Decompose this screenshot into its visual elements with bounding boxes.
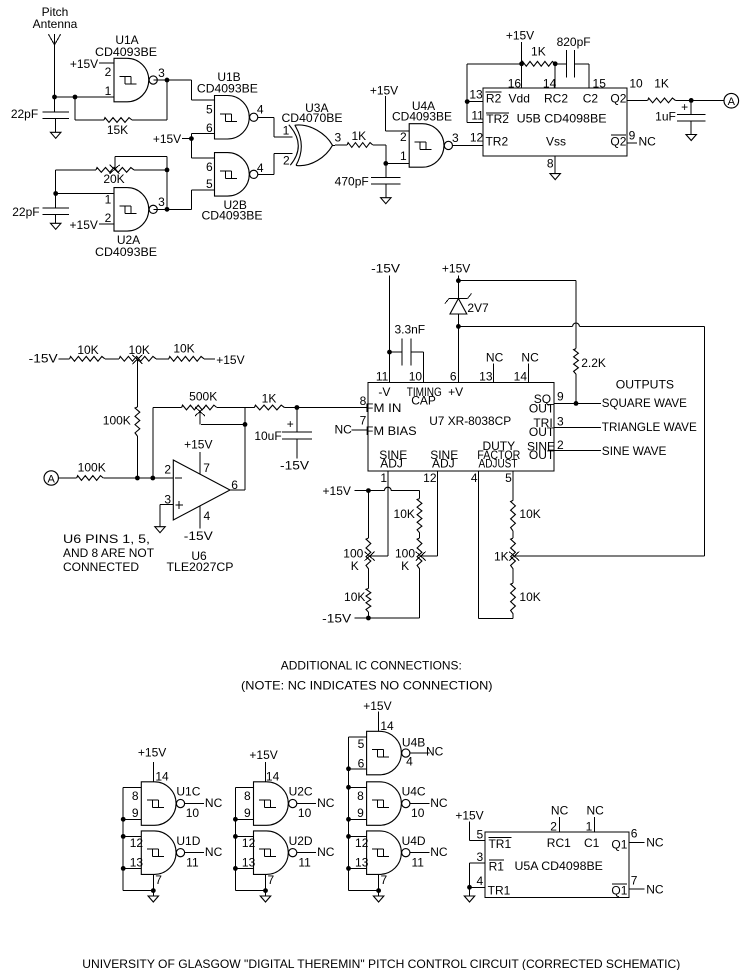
svg-text:R1: R1 (489, 859, 505, 873)
svg-text:13: 13 (479, 370, 493, 384)
svg-text:500K: 500K (189, 390, 217, 404)
svg-text:ADJUST: ADJUST (479, 457, 519, 471)
svg-text:1uF: 1uF (655, 109, 676, 123)
svg-text:9: 9 (629, 129, 636, 143)
svg-text:7: 7 (631, 873, 638, 887)
svg-text:3: 3 (477, 850, 484, 864)
svg-text:U4D: U4D (402, 834, 426, 848)
svg-text:TR1: TR1 (488, 884, 511, 898)
svg-text:TRIANGLE WAVE: TRIANGLE WAVE (602, 420, 697, 434)
svg-text:6: 6 (450, 370, 457, 384)
svg-text:14: 14 (155, 770, 169, 784)
svg-text:Q1: Q1 (611, 838, 627, 852)
svg-text:11: 11 (411, 856, 424, 870)
svg-text:U5A CD4098BE: U5A CD4098BE (515, 859, 603, 873)
svg-text:4: 4 (257, 161, 264, 175)
svg-text:15: 15 (593, 76, 607, 90)
svg-text:1K: 1K (262, 391, 277, 405)
svg-text:OUTPUTS: OUTPUTS (616, 378, 674, 392)
svg-text:U1C: U1C (176, 785, 200, 799)
svg-text:+15V: +15V (138, 745, 166, 759)
svg-text:U1D: U1D (176, 834, 200, 848)
svg-text:6: 6 (206, 121, 213, 135)
svg-text:10: 10 (409, 370, 423, 384)
svg-text:FM BIAS: FM BIAS (366, 424, 417, 438)
svg-text:TR2: TR2 (486, 112, 509, 126)
svg-text:22pF: 22pF (11, 107, 38, 121)
svg-text:Q2: Q2 (610, 92, 626, 106)
svg-text:2V7: 2V7 (467, 301, 489, 315)
svg-text:Q1: Q1 (611, 884, 627, 898)
svg-text:14: 14 (543, 76, 557, 90)
svg-text:Antenna: Antenna (33, 17, 78, 31)
svg-text:4: 4 (204, 509, 211, 523)
svg-text:11: 11 (186, 856, 199, 870)
svg-text:10: 10 (298, 806, 312, 820)
svg-text:U2D: U2D (289, 834, 313, 848)
svg-text:11: 11 (298, 856, 311, 870)
svg-text:10K: 10K (344, 590, 365, 604)
svg-text:10K: 10K (394, 507, 415, 521)
svg-text:4: 4 (471, 471, 478, 485)
svg-text:A: A (48, 473, 56, 485)
svg-text:TR1: TR1 (488, 837, 511, 851)
svg-text:1: 1 (586, 820, 593, 834)
svg-text:6: 6 (206, 160, 213, 174)
svg-text:K: K (351, 559, 359, 573)
svg-text:3: 3 (334, 131, 341, 145)
svg-text:+15V: +15V (216, 353, 244, 367)
svg-text:U2C: U2C (289, 785, 313, 799)
svg-text:U5B CD4098BE: U5B CD4098BE (517, 112, 607, 126)
svg-text:22pF: 22pF (12, 205, 39, 219)
svg-text:7: 7 (360, 414, 367, 428)
svg-text:(NOTE: NC INDICATES NO CONNEC: (NOTE: NC INDICATES NO CONNECTION) (241, 678, 493, 692)
svg-text:CD4093BE: CD4093BE (95, 45, 157, 59)
svg-text:10K: 10K (77, 343, 98, 357)
svg-text:+15V: +15V (249, 748, 277, 762)
svg-text:NC: NC (551, 804, 569, 818)
svg-text:9: 9 (244, 806, 251, 820)
svg-text:13: 13 (242, 856, 256, 870)
svg-text:U4C: U4C (402, 785, 426, 799)
svg-text:OUT: OUT (529, 425, 555, 439)
svg-text:8: 8 (132, 789, 139, 803)
svg-text:CD4070BE: CD4070BE (282, 111, 343, 125)
svg-text:NC: NC (521, 351, 539, 365)
svg-text:FM IN: FM IN (365, 401, 401, 415)
svg-text:14: 14 (266, 770, 280, 784)
svg-text:CONNECTED: CONNECTED (63, 560, 139, 574)
svg-text:7: 7 (203, 461, 210, 475)
svg-text:13: 13 (130, 856, 144, 870)
svg-text:3: 3 (158, 66, 165, 80)
svg-text:-15V: -15V (184, 529, 213, 543)
svg-text:K: K (401, 559, 409, 573)
svg-text:1: 1 (380, 471, 387, 485)
svg-text:CD4093BE: CD4093BE (197, 81, 258, 95)
svg-text:5: 5 (505, 471, 512, 485)
svg-text:OUT: OUT (529, 401, 555, 415)
svg-text:Vdd: Vdd (509, 91, 530, 105)
svg-text:1: 1 (105, 192, 112, 206)
svg-text:C1: C1 (584, 836, 600, 850)
svg-text:4: 4 (257, 102, 264, 116)
svg-text:+15V: +15V (455, 809, 483, 823)
svg-text:5: 5 (206, 102, 213, 116)
svg-text:RC1: RC1 (547, 836, 571, 850)
svg-text:2: 2 (550, 820, 557, 834)
svg-text:+V: +V (448, 385, 463, 399)
svg-text:2: 2 (164, 463, 171, 477)
svg-text:SINE WAVE: SINE WAVE (602, 444, 667, 458)
svg-text:11: 11 (471, 109, 484, 123)
svg-text:15K: 15K (107, 123, 128, 137)
svg-text:1: 1 (283, 123, 290, 137)
svg-text:AND 8 ARE NOT: AND 8 ARE NOT (63, 546, 155, 560)
svg-text:NC: NC (317, 845, 335, 859)
svg-text:14: 14 (380, 719, 394, 733)
svg-text:NC: NC (205, 845, 223, 859)
svg-text:470pF: 470pF (335, 175, 369, 189)
svg-text:NC: NC (430, 845, 448, 859)
svg-text:100K: 100K (103, 414, 131, 428)
svg-text:-15V: -15V (371, 262, 400, 276)
svg-text:8: 8 (357, 789, 364, 803)
svg-text:3: 3 (557, 414, 564, 428)
svg-text:NC: NC (335, 423, 353, 437)
svg-text:+15V: +15V (442, 262, 470, 276)
svg-text:10K: 10K (519, 507, 540, 521)
svg-text:CD4093BE: CD4093BE (392, 110, 452, 124)
svg-text:U4B: U4B (402, 735, 425, 749)
svg-text:4: 4 (477, 874, 484, 888)
svg-text:1K: 1K (654, 76, 669, 90)
svg-text:5: 5 (206, 177, 213, 191)
svg-text:-V: -V (378, 385, 390, 399)
svg-text:12: 12 (242, 836, 256, 850)
svg-text:3: 3 (452, 131, 459, 145)
svg-text:12: 12 (355, 836, 369, 850)
svg-text:8: 8 (547, 157, 554, 171)
svg-text:9: 9 (132, 806, 139, 820)
svg-text:7: 7 (381, 873, 388, 887)
svg-text:NC: NC (205, 796, 223, 810)
svg-text:10K: 10K (129, 343, 150, 357)
svg-text:ADDITIONAL IC CONNECTIONS:: ADDITIONAL IC CONNECTIONS: (281, 659, 462, 673)
svg-text:2: 2 (105, 65, 112, 79)
svg-text:NC: NC (646, 836, 664, 850)
svg-text:A: A (728, 96, 736, 108)
svg-text:7: 7 (155, 873, 162, 887)
svg-text:ADJ: ADJ (432, 457, 455, 471)
svg-text:10: 10 (629, 76, 643, 90)
svg-text:10: 10 (186, 806, 200, 820)
svg-text:3: 3 (158, 195, 165, 209)
svg-text:10uF: 10uF (254, 429, 281, 443)
svg-text:6: 6 (358, 756, 365, 770)
svg-text:8: 8 (360, 394, 367, 408)
svg-text:NC: NC (646, 882, 664, 896)
svg-text:20K: 20K (103, 172, 124, 186)
svg-text:CD4093BE: CD4093BE (95, 245, 157, 259)
svg-text:2: 2 (105, 211, 112, 225)
svg-text:10K: 10K (519, 590, 540, 604)
svg-text:+15V: +15V (70, 218, 98, 232)
svg-text:820pF: 820pF (557, 35, 591, 49)
svg-text:-15V: -15V (322, 612, 351, 626)
svg-text:+15V: +15V (363, 699, 391, 713)
svg-text:2: 2 (557, 438, 564, 452)
svg-text:U6 PINS 1, 5,: U6 PINS 1, 5, (63, 532, 150, 546)
svg-text:16: 16 (508, 76, 522, 90)
svg-text:1K: 1K (531, 45, 546, 59)
svg-text:1: 1 (105, 84, 112, 98)
svg-text:TR2: TR2 (485, 134, 508, 148)
svg-text:100K: 100K (78, 461, 106, 475)
svg-text:CAP: CAP (411, 394, 436, 408)
svg-text:+15V: +15V (370, 83, 398, 97)
svg-text:3.3nF: 3.3nF (394, 323, 425, 337)
svg-text:5: 5 (358, 737, 365, 751)
svg-text:U7 XR-8038CP: U7 XR-8038CP (429, 414, 511, 428)
svg-text:+15V: +15V (506, 29, 534, 43)
svg-text:+: + (287, 417, 294, 431)
svg-text:13: 13 (355, 856, 369, 870)
svg-text:NC: NC (317, 796, 335, 810)
svg-text:1K: 1K (351, 129, 366, 143)
svg-text:CD4093BE: CD4093BE (202, 209, 263, 223)
svg-text:6: 6 (631, 827, 638, 841)
svg-text:2: 2 (400, 130, 407, 144)
svg-text:OUT: OUT (529, 448, 555, 462)
svg-text:NC: NC (426, 745, 444, 759)
svg-text:Q2: Q2 (610, 134, 626, 148)
svg-text:NC: NC (430, 796, 448, 810)
svg-text:4: 4 (406, 755, 413, 769)
svg-text:SQUARE WAVE: SQUARE WAVE (602, 396, 687, 410)
svg-text:+15V: +15V (70, 57, 98, 71)
svg-text:ADJ: ADJ (380, 457, 403, 471)
svg-text:R2: R2 (486, 92, 502, 106)
svg-text:+15V: +15V (184, 438, 212, 452)
svg-text:+15V: +15V (323, 484, 351, 498)
svg-text:14: 14 (514, 370, 528, 384)
svg-text:NC: NC (587, 804, 605, 818)
svg-text:8: 8 (244, 789, 251, 803)
svg-text:9: 9 (557, 390, 564, 404)
svg-text:9: 9 (357, 806, 364, 820)
svg-text:-15V: -15V (280, 458, 309, 472)
svg-text:UNIVERSITY OF GLASGOW "DIGITA: UNIVERSITY OF GLASGOW "DIGITAL THEREMIN"… (82, 957, 680, 970)
svg-text:7: 7 (267, 873, 274, 887)
svg-text:11: 11 (376, 370, 389, 384)
svg-text:1: 1 (400, 149, 407, 163)
svg-text:2.2K: 2.2K (581, 356, 606, 370)
svg-text:C2: C2 (583, 91, 599, 105)
svg-text:-15V: -15V (29, 351, 58, 365)
svg-text:12: 12 (130, 836, 144, 850)
svg-text:10K: 10K (173, 342, 194, 356)
svg-text:5: 5 (477, 827, 484, 841)
svg-text:Vss: Vss (546, 134, 566, 148)
svg-text:10: 10 (411, 806, 425, 820)
svg-text:2: 2 (283, 153, 290, 167)
svg-text:1K: 1K (494, 549, 509, 563)
svg-text:12: 12 (470, 130, 484, 144)
svg-text:RC2: RC2 (544, 91, 568, 105)
svg-text:13: 13 (469, 88, 483, 102)
svg-text:NC: NC (486, 351, 504, 365)
svg-text:NC: NC (639, 134, 657, 148)
svg-text:+15V: +15V (153, 132, 181, 146)
svg-text:TLE2027CP: TLE2027CP (167, 560, 234, 574)
svg-text:12: 12 (423, 471, 437, 485)
svg-text:+: + (681, 100, 688, 114)
